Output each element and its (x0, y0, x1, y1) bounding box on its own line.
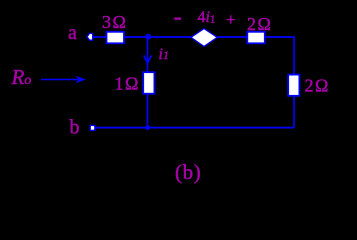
svg-text:b: b (70, 117, 80, 139)
terminal a (open arrow terminal) (87, 33, 93, 40)
svg-text:+: + (226, 10, 236, 29)
label minus sign (174, 18, 181, 20)
arrow Ro pointing right (41, 79, 79, 81)
svg-text:a: a (68, 22, 77, 44)
wire: terminal a to 3-ohm resistor (93, 36, 106, 38)
wire: diamond to 2-ohm resistor (217, 36, 247, 38)
terminal b (small square terminal) (90, 125, 95, 130)
node junction (bottom, filled dot) (145, 125, 150, 130)
resistor R1 3-ohm (horizontal box) (107, 32, 125, 44)
wire: middle branch vertical (147, 38, 149, 128)
resistor R2 2-ohm (horizontal box) (247, 32, 264, 44)
svg-text:1Ω: 1Ω (115, 74, 140, 94)
op-amp: dependent source diamond U1 (4 i1) (191, 29, 217, 47)
wire: 2-ohm to top-right corner and down right side (265, 37, 294, 128)
svg-text:(b): (b) (175, 160, 201, 184)
resistor R4 1-ohm (vertical box, middle branch) (143, 72, 154, 94)
svg-text:3Ω: 3Ω (102, 12, 127, 32)
svg-text:2Ω: 2Ω (247, 14, 272, 34)
current arrow i1 (down arrowhead on middle branch) (144, 55, 152, 63)
svg-text:2Ω: 2Ω (305, 76, 330, 96)
resistor R3 2-ohm (vertical box, right branch) (288, 75, 299, 96)
svg-text:i1: i1 (159, 46, 169, 63)
wire: bottom from terminal b to bottom-right corner (95, 127, 294, 129)
wire: 3-ohm to diamond source (124, 36, 192, 38)
node junction (top, on middle branch) (146, 35, 150, 39)
